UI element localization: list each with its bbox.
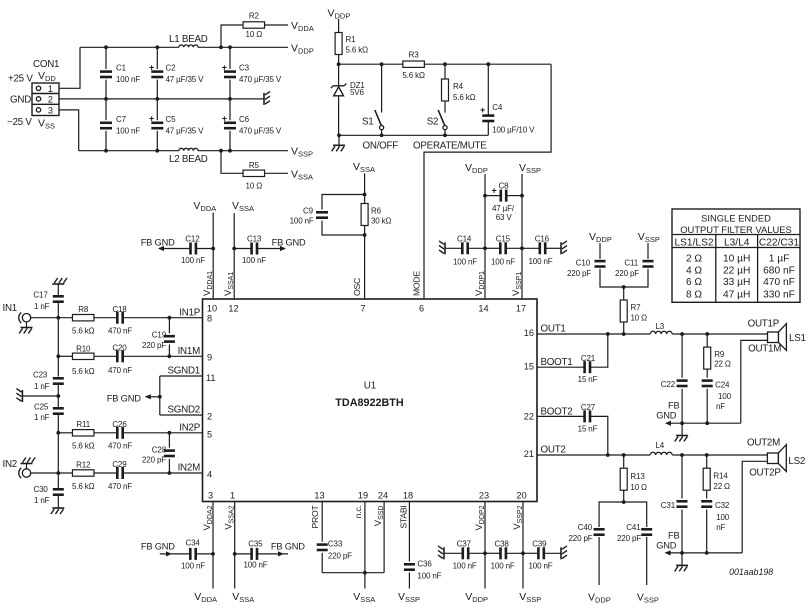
svg-text:1 µF: 1 µF (769, 254, 790, 265)
svg-text:5.6 kΩ: 5.6 kΩ (453, 93, 476, 102)
svg-text:OUT1: OUT1 (541, 324, 566, 335)
capacitor C4 (487, 64, 489, 115)
svg-text:330 nF: 330 nF (763, 290, 795, 301)
svg-text:C1: C1 (116, 64, 127, 73)
capacitor C23 (53, 377, 64, 380)
svg-text:220 pF: 220 pF (567, 269, 591, 278)
capacitor C22 (681, 334, 683, 378)
capacitor C9 (322, 195, 365, 210)
svg-text:470 µF/35 V: 470 µF/35 V (239, 75, 282, 84)
svg-text:2 Ω: 2 Ω (686, 254, 702, 265)
svg-text:7: 7 (360, 304, 365, 314)
svg-text:220 pF: 220 pF (617, 534, 641, 543)
svg-text:IN1: IN1 (3, 303, 18, 314)
svg-text:470 µF/35 V: 470 µF/35 V (239, 127, 282, 136)
svg-text:17: 17 (516, 304, 526, 314)
svg-text:C5: C5 (166, 115, 177, 124)
svg-text:−25 V: −25 V (7, 117, 32, 128)
svg-text:5.6 kΩ: 5.6 kΩ (72, 442, 95, 451)
svg-text:FB: FB (668, 531, 679, 541)
svg-text:C11: C11 (624, 259, 638, 268)
svg-text:C9: C9 (303, 207, 314, 216)
svg-text:100 nF: 100 nF (181, 256, 205, 265)
svg-text:FB GND: FB GND (272, 238, 306, 248)
svg-text:C20: C20 (112, 343, 127, 352)
svg-text:100 nF: 100 nF (181, 562, 205, 571)
wire VSS rail (79, 150, 179, 152)
connector CON1 (32, 83, 59, 116)
wire OUT2 row (537, 454, 650, 456)
svg-text:100 nF: 100 nF (116, 75, 140, 84)
wire CON1 pin1 to VDD rail (59, 47, 80, 88)
capacitor C12 (158, 246, 164, 251)
svg-text:R2: R2 (249, 12, 260, 21)
svg-text:C30: C30 (34, 485, 49, 494)
svg-text:19: 19 (358, 491, 368, 501)
svg-text:L3/L4: L3/L4 (724, 238, 750, 249)
wire OUT1 row (537, 333, 650, 335)
svg-text:GND: GND (656, 541, 677, 551)
svg-text:MODE: MODE (412, 271, 422, 296)
capacitor C1 (105, 47, 107, 69)
svg-text:001aab198: 001aab198 (729, 567, 773, 577)
wire SGND1 (160, 375, 203, 377)
svg-text:SINGLE ENDED: SINGLE ENDED (701, 213, 771, 224)
switch S2 (438, 110, 445, 125)
svg-text:C4: C4 (492, 103, 503, 112)
inductor L3 (650, 331, 672, 334)
svg-text:C22: C22 (661, 380, 676, 389)
svg-text:R14: R14 (713, 472, 728, 481)
wire nc line (364, 502, 366, 589)
speaker LS1 (768, 332, 779, 343)
svg-text:10: 10 (207, 304, 217, 314)
svg-text:1 nF: 1 nF (34, 496, 50, 505)
svg-text:C17: C17 (33, 291, 48, 300)
svg-text:220 pF: 220 pF (328, 552, 352, 561)
svg-text:ON/OFF: ON/OFF (363, 141, 399, 152)
svg-text:R13: R13 (630, 472, 645, 481)
capacitor C24 (702, 379, 713, 382)
wire VDDP2 line (484, 502, 486, 589)
capacitor C21 (537, 366, 585, 368)
svg-text:+: + (492, 186, 497, 196)
svg-text:C34: C34 (186, 538, 201, 547)
wire IN1 row (31, 317, 73, 319)
ground IN2 (26, 464, 28, 469)
svg-text:IN2: IN2 (3, 459, 18, 470)
svg-text:16: 16 (524, 328, 534, 338)
wire VSSP2 line (522, 502, 524, 589)
svg-text:47 µF/35 V: 47 µF/35 V (166, 127, 205, 136)
svg-text:IN1P: IN1P (179, 308, 200, 319)
svg-text:100 nF: 100 nF (453, 258, 477, 267)
svg-text:+: + (222, 63, 227, 73)
svg-text:100 µF/10 V: 100 µF/10 V (492, 126, 535, 135)
svg-text:100 nF: 100 nF (529, 562, 553, 571)
svg-text:IN2M: IN2M (178, 463, 200, 474)
capacitor C29 (94, 472, 117, 474)
svg-text:STABI: STABI (398, 506, 408, 529)
wire VSSA2 line (234, 502, 236, 589)
wire IN2 bus (57, 433, 59, 473)
capacitor C26 (94, 432, 117, 434)
svg-text:C39: C39 (532, 540, 547, 549)
wire C40 C41 bracket (622, 500, 626, 504)
resistor R2 (221, 25, 243, 47)
svg-text:LS2: LS2 (788, 456, 805, 467)
svg-text:C31: C31 (661, 501, 676, 510)
svg-text:C8: C8 (499, 182, 510, 191)
svg-text:n.c.: n.c. (353, 506, 363, 519)
junction dots outputs (606, 332, 610, 336)
wire CON1 pin2 GND rail (59, 98, 264, 100)
capacitor C35 (235, 553, 252, 555)
resistor R11 (58, 432, 72, 434)
svg-text:C28: C28 (152, 446, 167, 455)
inductor L2 BEAD (179, 148, 198, 150)
svg-text:47 µH: 47 µH (723, 290, 750, 301)
svg-text:100 nF: 100 nF (417, 572, 441, 581)
svg-text:TDA8922BTH: TDA8922BTH (335, 397, 404, 409)
capacitor C7 (105, 99, 107, 120)
resistor R14 (706, 455, 708, 468)
svg-text:220 pF: 220 pF (568, 534, 592, 543)
speaker LS2 (767, 453, 778, 464)
capacitor C8 (485, 195, 501, 197)
wire VDD rail (80, 46, 179, 48)
svg-text:24: 24 (378, 491, 388, 501)
svg-text:15: 15 (524, 362, 534, 372)
svg-text:47 µF/35 V: 47 µF/35 V (166, 75, 205, 84)
svg-text:10 Ω: 10 Ω (246, 182, 263, 191)
svg-text:OUTPUT FILTER VALUES: OUTPUT FILTER VALUES (680, 224, 791, 235)
capacitor C18 (94, 317, 117, 319)
capacitor C33 (321, 502, 323, 542)
inductor L4 (650, 452, 672, 455)
svg-text:C15: C15 (496, 235, 511, 244)
ground IN1 (26, 322, 28, 328)
svg-text:100 nF: 100 nF (116, 127, 140, 136)
svg-text:100 nF: 100 nF (491, 562, 515, 571)
svg-text:FB GND: FB GND (271, 542, 305, 552)
svg-text:4: 4 (207, 470, 212, 480)
svg-text:C19: C19 (152, 331, 167, 340)
svg-text:10 Ω: 10 Ω (630, 483, 647, 492)
svg-text:OUT1M: OUT1M (748, 344, 781, 355)
svg-text:10 µH: 10 µH (723, 254, 750, 265)
svg-text:220 pF: 220 pF (142, 455, 166, 464)
svg-text:6: 6 (419, 304, 424, 314)
capacitor C31 (681, 455, 683, 499)
resistor R7 (622, 285, 626, 289)
svg-text:470 nF: 470 nF (108, 442, 132, 451)
svg-text:100 nF: 100 nF (290, 217, 314, 226)
ground OUT2 filter (681, 553, 683, 566)
resistor R12 (72, 470, 94, 476)
svg-text:C3: C3 (239, 64, 250, 73)
resistor R10 (58, 355, 72, 357)
capacitor C38 (485, 552, 501, 554)
svg-text:R6: R6 (371, 207, 382, 216)
svg-text:FB GND: FB GND (141, 238, 175, 248)
svg-text:+: + (149, 114, 154, 124)
svg-text:100 nF: 100 nF (242, 256, 266, 265)
svg-text:R5: R5 (249, 161, 260, 170)
wire SGND2 (160, 414, 203, 416)
svg-text:11: 11 (206, 373, 216, 383)
svg-text:R10: R10 (76, 345, 91, 354)
svg-text:C7: C7 (116, 115, 127, 124)
resistor R1 (338, 19, 340, 33)
resistor R8 (72, 315, 94, 321)
ground input mid (21, 390, 23, 402)
svg-text:FB GND: FB GND (107, 394, 141, 404)
capacitor C15 (485, 247, 500, 249)
svg-text:3: 3 (208, 491, 213, 501)
svg-text:470 nF: 470 nF (108, 327, 132, 336)
svg-text:C32: C32 (715, 501, 730, 510)
svg-text:6 Ω: 6 Ω (686, 277, 702, 288)
svg-text:FB GND: FB GND (141, 542, 175, 552)
svg-text:100 nF: 100 nF (244, 561, 268, 570)
svg-text:+25 V: +25 V (8, 74, 33, 85)
capacitor C36 (408, 502, 410, 562)
svg-text:22: 22 (524, 412, 534, 422)
svg-text:20: 20 (516, 491, 526, 501)
svg-text:C18: C18 (112, 305, 127, 314)
svg-text:SGND2: SGND2 (167, 405, 200, 416)
svg-text:S1: S1 (362, 117, 373, 128)
ground GND rail (263, 93, 265, 105)
svg-text:220 pF: 220 pF (615, 269, 639, 278)
svg-text:BOOT1: BOOT1 (541, 357, 573, 368)
capacitor C27 (537, 415, 585, 417)
svg-text:OUT1P: OUT1P (748, 319, 780, 330)
ground IN2 bottom (52, 507, 64, 509)
svg-text:S2: S2 (427, 117, 438, 128)
svg-text:nF: nF (716, 523, 725, 532)
capacitor C39 (523, 552, 538, 554)
switch S1 (381, 64, 383, 112)
svg-text:C13: C13 (247, 235, 262, 244)
capacitor C16 (522, 247, 540, 249)
svg-text:C16: C16 (535, 235, 550, 244)
svg-text:22 Ω: 22 Ω (713, 482, 730, 491)
capacitor C6 (229, 99, 231, 120)
svg-text:U1: U1 (364, 381, 377, 392)
wire IN1 bus upper (57, 318, 59, 377)
op-amp U1 TDA8922BTH body (203, 299, 538, 502)
svg-text:5: 5 (207, 429, 212, 439)
svg-text:IN2P: IN2P (179, 423, 200, 434)
svg-text:C2: C2 (166, 64, 177, 73)
svg-text:C38: C38 (495, 540, 510, 549)
capacitor C37 (443, 547, 445, 559)
resistor R9 (706, 334, 708, 347)
svg-text:SGND1: SGND1 (167, 366, 200, 377)
svg-text:1 nF: 1 nF (34, 382, 50, 391)
svg-text:220 pF: 220 pF (142, 341, 166, 350)
svg-text:100: 100 (718, 392, 732, 401)
svg-text:100 nF: 100 nF (453, 562, 477, 571)
capacitor C28 (168, 433, 170, 448)
junction dots mode circuit (337, 62, 341, 66)
svg-text:3: 3 (48, 105, 53, 115)
svg-text:18: 18 (403, 491, 413, 501)
wire CON1 pin3 to VSS rail (59, 110, 79, 151)
capacitor C20 (94, 355, 117, 357)
svg-text:R1: R1 (346, 35, 357, 44)
svg-text:OUT2: OUT2 (541, 445, 566, 456)
svg-text:R11: R11 (76, 420, 90, 429)
svg-text:C6: C6 (239, 115, 250, 124)
svg-text:470 nF: 470 nF (108, 366, 132, 375)
svg-text:R8: R8 (78, 305, 89, 314)
svg-text:C14: C14 (457, 235, 472, 244)
svg-text:2: 2 (207, 412, 212, 422)
svg-text:C33: C33 (328, 540, 343, 549)
svg-text:5.6 kΩ: 5.6 kΩ (72, 482, 95, 491)
junction dots inputs (56, 316, 60, 320)
svg-text:C12: C12 (185, 235, 200, 244)
svg-text:OUT2P: OUT2P (749, 468, 781, 479)
svg-text:C23: C23 (33, 370, 48, 379)
svg-text:22 µH: 22 µH (723, 265, 750, 276)
svg-text:C41: C41 (626, 523, 641, 532)
svg-text:33 µH: 33 µH (723, 277, 750, 288)
capacitor C32 (701, 500, 712, 503)
capacitor C41 (641, 528, 652, 531)
svg-text:470 nF: 470 nF (763, 277, 795, 288)
capacitor C30 (57, 473, 59, 489)
svg-text:L3: L3 (656, 322, 665, 331)
svg-text:OSC: OSC (352, 278, 362, 296)
svg-text:FB: FB (668, 401, 679, 411)
table single ended output filter values (672, 209, 800, 302)
junction dots power rails (104, 45, 108, 49)
zener diode DZ1 (338, 64, 340, 86)
svg-text:C22/C31: C22/C31 (759, 238, 800, 249)
svg-text:1: 1 (230, 491, 235, 501)
svg-text:4 Ω: 4 Ω (686, 265, 702, 276)
svg-text:C21: C21 (581, 354, 596, 363)
svg-text:15 nF: 15 nF (578, 375, 598, 384)
capacitor C17 (52, 283, 64, 285)
capacitor C3 (229, 47, 231, 69)
svg-text:OPERATE/MUTE: OPERATE/MUTE (413, 141, 487, 152)
svg-text:R9: R9 (714, 350, 725, 359)
wire VDDA2 line (212, 502, 214, 589)
svg-text:30 kΩ: 30 kΩ (371, 217, 392, 226)
svg-text:5.6 kΩ: 5.6 kΩ (72, 327, 95, 336)
svg-text:R7: R7 (631, 303, 642, 312)
wire VSSD line (383, 502, 385, 573)
resistor R5 (221, 151, 243, 174)
wire OUT2P return (742, 461, 767, 553)
resistor R4 (444, 64, 446, 79)
svg-text:LS1/LS2: LS1/LS2 (674, 238, 713, 249)
svg-text:5.6 kΩ: 5.6 kΩ (402, 71, 425, 80)
svg-text:LS1: LS1 (789, 333, 806, 344)
svg-text:+: + (149, 63, 154, 73)
svg-text:680 nF: 680 nF (763, 265, 795, 276)
svg-text:L2 BEAD: L2 BEAD (169, 154, 208, 165)
capacitor C40 (594, 528, 605, 531)
svg-text:14: 14 (478, 304, 488, 314)
svg-text:8: 8 (207, 314, 212, 324)
inductor L1 BEAD (179, 45, 198, 47)
svg-text:15 nF: 15 nF (578, 425, 598, 434)
svg-text:10 Ω: 10 Ω (246, 30, 263, 39)
svg-text:C26: C26 (112, 420, 127, 429)
svg-text:L4: L4 (656, 441, 665, 450)
svg-text:1 nF: 1 nF (34, 413, 50, 422)
svg-text:C35: C35 (248, 540, 263, 549)
svg-text:R12: R12 (76, 460, 91, 469)
svg-text:13: 13 (314, 491, 324, 501)
resistor R3 (403, 61, 425, 67)
wire mute bottom rail (339, 134, 488, 136)
svg-text:5.6 kΩ: 5.6 kΩ (346, 46, 369, 55)
wire PROT to VSSA (322, 572, 384, 574)
svg-text:C40: C40 (578, 523, 593, 532)
svg-text:5.6 kΩ: 5.6 kΩ (72, 367, 95, 376)
svg-text:+: + (480, 105, 485, 115)
svg-text:IN1M: IN1M (178, 346, 200, 357)
capacitor C25 (57, 396, 59, 408)
svg-text:100: 100 (716, 513, 730, 522)
svg-text:100 nF: 100 nF (529, 257, 553, 266)
wire IN2 row (31, 472, 73, 474)
svg-text:23: 23 (479, 491, 489, 501)
ground mute rail (338, 135, 340, 145)
svg-text:12: 12 (228, 304, 238, 314)
svg-text:C29: C29 (112, 460, 127, 469)
svg-text:C24: C24 (715, 381, 730, 390)
svg-text:GND: GND (656, 411, 677, 421)
svg-text:21: 21 (524, 449, 534, 459)
svg-text:nF: nF (716, 402, 725, 411)
svg-text:R4: R4 (453, 82, 464, 91)
svg-text:CON1: CON1 (33, 59, 59, 70)
capacitor C19 (168, 318, 170, 334)
svg-text:22 Ω: 22 Ω (714, 360, 731, 369)
svg-text:C37: C37 (457, 540, 472, 549)
svg-text:2: 2 (48, 94, 53, 104)
svg-text:47 µF/: 47 µF/ (492, 204, 515, 213)
svg-text:GND: GND (10, 95, 31, 106)
wire OSC line (364, 173, 366, 203)
wire SGND bracket (159, 376, 161, 415)
wire OUT1M return (741, 340, 768, 423)
svg-text:5V6: 5V6 (350, 88, 364, 97)
svg-text:C27: C27 (581, 403, 596, 412)
svg-text:100 nF: 100 nF (491, 258, 515, 267)
wire mode to MODE pin (424, 64, 551, 299)
svg-text:C10: C10 (576, 259, 591, 268)
svg-text:OUT2M: OUT2M (747, 438, 780, 449)
ground OUT1 filter (681, 423, 683, 435)
capacitor C2 (156, 47, 158, 69)
svg-text:470 nF: 470 nF (108, 482, 132, 491)
wire mode rail (339, 63, 403, 65)
svg-text:1: 1 (48, 84, 53, 94)
capacitor C5 (156, 99, 158, 120)
svg-text:+: + (222, 114, 227, 124)
svg-text:PROT: PROT (310, 505, 320, 529)
capacitor C13 (234, 248, 251, 250)
